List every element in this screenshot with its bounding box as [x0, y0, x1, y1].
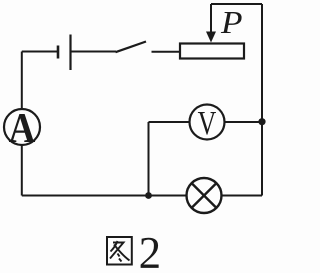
switch S blade	[116, 42, 147, 53]
wire voltmeter branch vertical	[148, 122, 150, 196]
wire left stub to battery	[22, 51, 57, 53]
rheostat wiper arrow shaft	[210, 4, 212, 33]
wire ammeter to bottom	[21, 145, 23, 196]
rheostat P body	[180, 44, 244, 59]
wire voltmeter left	[149, 121, 190, 123]
svg-text:V: V	[198, 104, 217, 142]
wire right to lamp	[222, 195, 263, 197]
junction node at voltmeter branch and bottom wire	[145, 192, 152, 199]
rheostat wiper arrowhead	[206, 32, 216, 43]
bottom wire	[22, 195, 187, 197]
svg-text:2: 2	[139, 228, 162, 273]
ammeter A1 circle	[4, 109, 40, 145]
caption character 图	[107, 237, 132, 265]
wire switch to rheostat	[152, 51, 180, 53]
battery B1 positive plate	[69, 35, 71, 71]
junction node at voltmeter right and right wire	[258, 118, 265, 125]
lamp L1 cross stroke 2	[192, 183, 217, 208]
wire battery to switch	[72, 51, 117, 53]
wire voltmeter right	[225, 121, 263, 123]
lamp L1 circle	[187, 178, 222, 213]
svg-text:P: P	[220, 5, 243, 40]
voltmeter V1 circle	[190, 105, 225, 140]
wire right vertical	[261, 4, 263, 196]
wire top-left vertical to ammeter	[21, 52, 23, 110]
battery B1 negative plate	[57, 46, 60, 59]
top wire from wiper to right	[211, 3, 262, 5]
lamp L1 cross stroke 1	[192, 183, 217, 208]
svg-text:A: A	[9, 105, 36, 152]
